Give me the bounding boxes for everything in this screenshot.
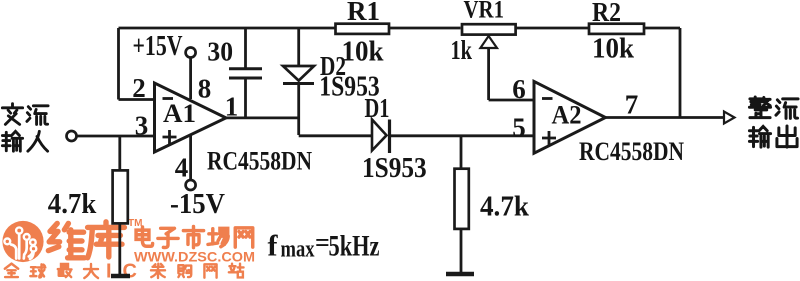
svg-text:10k: 10k <box>592 34 634 65</box>
svg-text:6: 6 <box>512 74 526 104</box>
label AC input 交流 <box>2 104 48 125</box>
wire 4.7k to ground <box>118 223 121 274</box>
op-amp A2 <box>534 81 606 153</box>
wire pin2 <box>119 98 156 101</box>
watermark text 维库 <box>48 222 124 258</box>
op-amp A2 plus sign <box>542 131 556 145</box>
-15V terminal circle <box>186 180 196 190</box>
wire R1 to VR1 <box>388 27 461 30</box>
svg-text:RC4558DN: RC4558DN <box>579 137 684 166</box>
svg-text:5: 5 <box>512 113 526 143</box>
wire input to 4.7k <box>118 136 121 170</box>
op-amp A1 plus sign <box>163 130 177 144</box>
svg-text:VR1: VR1 <box>464 0 505 24</box>
wire D1 to A2 pin5 <box>391 134 534 137</box>
svg-text:10k: 10k <box>342 37 384 68</box>
wire A2 output <box>606 116 724 119</box>
resistor 4.7k middle <box>455 169 469 229</box>
svg-text:-15V: -15V <box>170 188 225 220</box>
diode D1 <box>372 120 387 151</box>
svg-text:1S953: 1S953 <box>362 153 427 184</box>
svg-text:30: 30 <box>207 37 233 67</box>
svg-text:f: f <box>268 230 279 263</box>
svg-text:5kHz: 5kHz <box>329 230 380 263</box>
svg-text:4.7k: 4.7k <box>480 191 530 223</box>
wire pin1 output <box>226 117 299 120</box>
wire pin8 <box>189 58 192 99</box>
resistor R1 <box>336 24 390 34</box>
svg-text:1k: 1k <box>451 35 473 65</box>
wire cap top lead <box>244 28 247 68</box>
wire VR1 wiper down <box>487 48 490 101</box>
capacitor 30 <box>229 69 262 78</box>
svg-text:D1: D1 <box>365 93 390 123</box>
ground left <box>111 274 130 279</box>
potentiometer VR1 wiper arrow <box>480 36 497 48</box>
svg-text:max: max <box>281 237 315 263</box>
wire pin4 <box>189 136 192 180</box>
diode D2 <box>283 66 314 81</box>
label output 整流 <box>749 97 798 118</box>
svg-text:R2: R2 <box>592 0 621 27</box>
svg-text:TM: TM <box>128 218 142 229</box>
svg-text:+15V: +15V <box>133 30 183 62</box>
label AC input 输入 <box>2 131 47 151</box>
wire top rail <box>119 27 335 30</box>
op-amp A1 <box>155 83 227 152</box>
ground middle <box>446 272 474 277</box>
wire R2 to corner <box>644 27 680 30</box>
svg-text:4.7k: 4.7k <box>48 188 97 220</box>
svg-text:A1: A1 <box>163 99 196 128</box>
svg-text:7: 7 <box>625 90 639 120</box>
input terminal circle <box>67 131 77 141</box>
op-amp A1 minus sign <box>163 97 174 100</box>
wire D2 top lead <box>297 28 300 66</box>
svg-text:2: 2 <box>132 73 146 103</box>
potentiometer VR1 body <box>462 24 516 34</box>
svg-text:RC4558DN: RC4558DN <box>207 147 312 176</box>
svg-text:I: I <box>106 261 112 281</box>
svg-text:R1: R1 <box>347 0 380 26</box>
wire 4.7k mid to ground <box>460 229 463 272</box>
watermark logo circle <box>2 221 43 262</box>
wire wiper to pin6 <box>489 99 534 102</box>
label output 输出 <box>749 126 797 147</box>
wire cap bottom lead <box>244 79 247 118</box>
op-amp A2 minus sign <box>542 97 553 100</box>
watermark bottom row 全球最大IC采购网站 <box>5 264 98 278</box>
resistor 4.7k left <box>113 170 128 223</box>
wire D2 to D1 <box>299 134 372 137</box>
svg-text:WWW.DZSC.COM: WWW.DZSC.COM <box>134 249 255 265</box>
wire D2 bottom lead <box>297 84 300 135</box>
svg-text:4: 4 <box>175 153 189 183</box>
wire right vertical <box>679 28 682 118</box>
wire node to 4.7k mid <box>460 135 463 169</box>
wire feedback left vertical <box>117 28 120 100</box>
watermark text 电子市场网 <box>136 226 253 247</box>
svg-text:1: 1 <box>225 92 239 122</box>
wire VR1 to R2 <box>516 27 589 30</box>
output arrow <box>724 112 735 124</box>
wire input <box>77 135 155 138</box>
+15V terminal circle <box>186 48 196 58</box>
svg-text:A2: A2 <box>552 101 582 130</box>
svg-text:8: 8 <box>198 74 212 104</box>
resistor R2 <box>589 24 644 34</box>
svg-text:3: 3 <box>135 111 149 141</box>
